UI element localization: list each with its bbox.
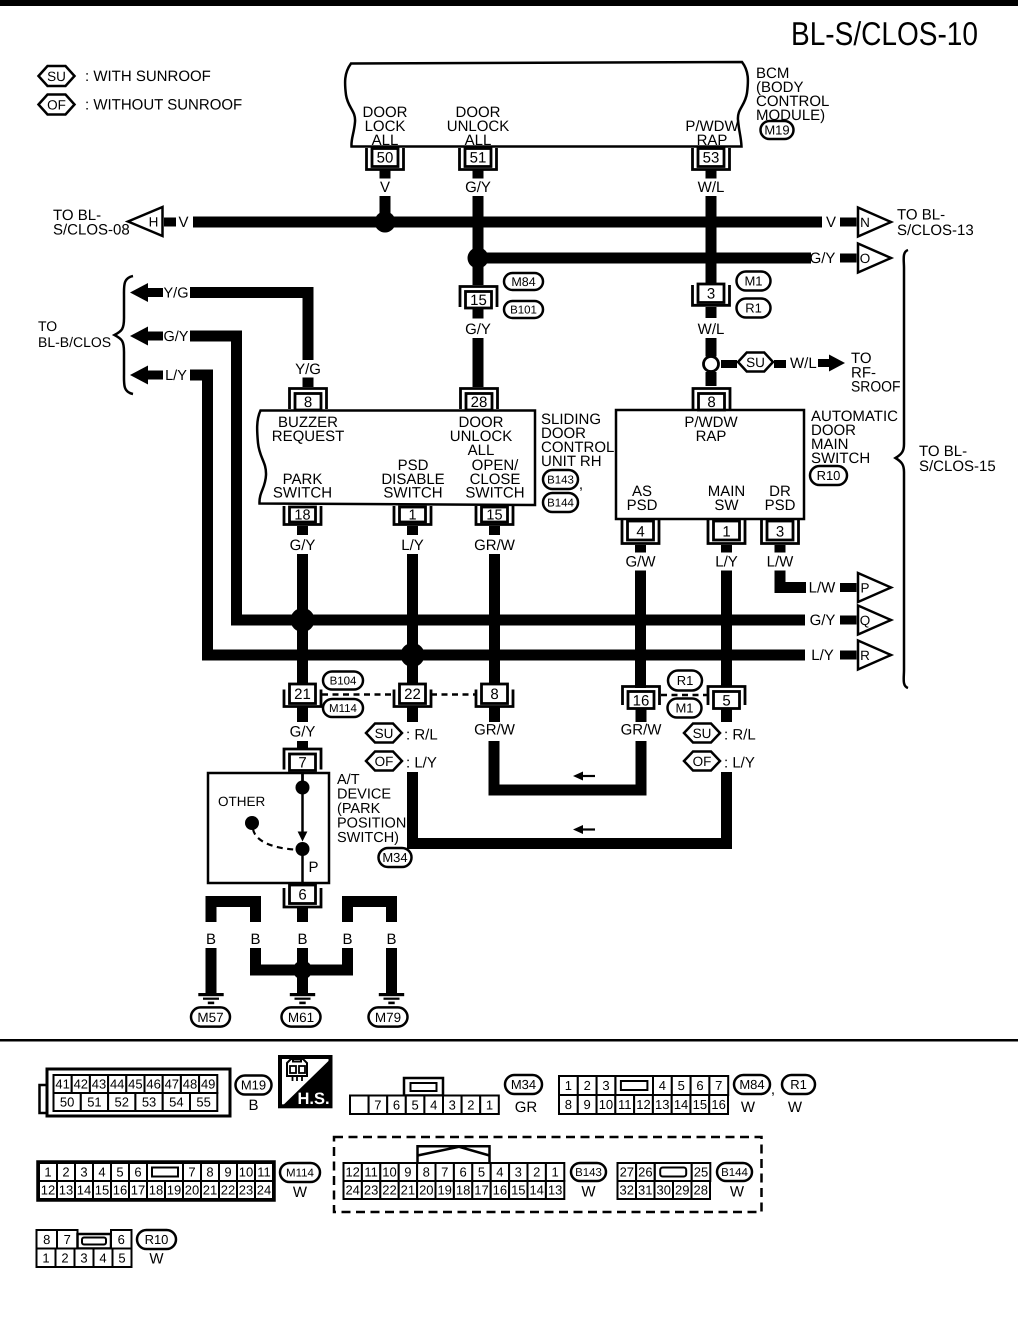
svg-text:G/Y: G/Y xyxy=(290,724,316,741)
svg-text:7: 7 xyxy=(64,1232,71,1247)
svg-text:25: 25 xyxy=(694,1165,708,1180)
svg-text:G/Y: G/Y xyxy=(465,321,491,338)
svg-text:SWITCH: SWITCH xyxy=(811,450,870,467)
svg-text:5: 5 xyxy=(411,1097,418,1112)
svg-text:UNIT RH: UNIT RH xyxy=(541,453,602,470)
svg-text:PSD: PSD xyxy=(765,497,796,514)
svg-text:4: 4 xyxy=(430,1097,437,1112)
svg-text:8: 8 xyxy=(43,1232,50,1247)
svg-text:R10: R10 xyxy=(145,1232,169,1247)
svg-text:M84: M84 xyxy=(511,275,535,289)
svg-text:16: 16 xyxy=(711,1097,725,1112)
svg-text:G/Y: G/Y xyxy=(810,250,836,267)
svg-text:4: 4 xyxy=(99,1250,106,1265)
svg-text:26: 26 xyxy=(638,1165,652,1180)
svg-text:12: 12 xyxy=(345,1165,359,1180)
svg-text:BL-B/CLOS: BL-B/CLOS xyxy=(38,334,111,350)
svg-text:14: 14 xyxy=(529,1183,543,1198)
svg-text:8: 8 xyxy=(490,686,498,703)
svg-text:3: 3 xyxy=(707,286,715,303)
svg-text:3: 3 xyxy=(449,1097,456,1112)
svg-text:43: 43 xyxy=(92,1077,106,1092)
svg-text:M84: M84 xyxy=(739,1077,764,1092)
svg-text:G/Y: G/Y xyxy=(465,179,491,196)
svg-text:2: 2 xyxy=(61,1250,68,1265)
svg-text:GR/W: GR/W xyxy=(474,537,516,554)
svg-text:19: 19 xyxy=(167,1183,181,1198)
svg-text:M114: M114 xyxy=(286,1168,315,1180)
svg-text:48: 48 xyxy=(183,1077,197,1092)
svg-text:18: 18 xyxy=(149,1183,163,1198)
svg-text:31: 31 xyxy=(638,1183,652,1198)
svg-text:W: W xyxy=(730,1184,745,1201)
svg-text:RAP: RAP xyxy=(697,132,728,149)
svg-text:1: 1 xyxy=(551,1165,558,1180)
svg-text:20: 20 xyxy=(185,1183,199,1198)
svg-text:13: 13 xyxy=(548,1183,562,1198)
svg-text:5: 5 xyxy=(478,1165,485,1180)
svg-text:3: 3 xyxy=(776,524,784,541)
svg-text:SU: SU xyxy=(693,726,712,741)
svg-text:54: 54 xyxy=(169,1095,183,1110)
svg-text:G/Y: G/Y xyxy=(290,537,316,554)
svg-text:51: 51 xyxy=(87,1095,101,1110)
svg-text:2: 2 xyxy=(467,1097,474,1112)
svg-text:18: 18 xyxy=(456,1183,470,1198)
svg-text:24: 24 xyxy=(345,1183,359,1198)
svg-text:R1: R1 xyxy=(745,301,762,316)
svg-text:15: 15 xyxy=(486,508,502,524)
svg-text:PSD: PSD xyxy=(627,497,658,514)
svg-text:B: B xyxy=(386,931,396,948)
svg-text:55: 55 xyxy=(196,1095,210,1110)
svg-text:13: 13 xyxy=(59,1183,73,1198)
svg-text:W/L: W/L xyxy=(698,179,725,196)
svg-text:TO BL-: TO BL- xyxy=(897,207,945,224)
svg-text:22: 22 xyxy=(382,1183,396,1198)
svg-text:B: B xyxy=(297,931,307,948)
svg-text:6: 6 xyxy=(696,1078,703,1093)
svg-text:M114: M114 xyxy=(329,703,358,715)
svg-text:SROOF: SROOF xyxy=(851,379,901,396)
svg-text:GR/W: GR/W xyxy=(621,722,663,739)
svg-text:OF: OF xyxy=(693,754,712,769)
svg-text:L/W: L/W xyxy=(809,580,837,597)
svg-text:5: 5 xyxy=(116,1165,123,1180)
svg-text:12: 12 xyxy=(41,1183,55,1198)
svg-text:2: 2 xyxy=(62,1165,69,1180)
svg-text:50: 50 xyxy=(60,1095,74,1110)
svg-text:23: 23 xyxy=(239,1183,253,1198)
svg-text:S/CLOS-13: S/CLOS-13 xyxy=(897,222,974,239)
svg-text:1: 1 xyxy=(42,1250,49,1265)
svg-text:OTHER: OTHER xyxy=(218,794,266,809)
svg-text:8: 8 xyxy=(423,1165,430,1180)
svg-text:32: 32 xyxy=(620,1183,634,1198)
svg-text:23: 23 xyxy=(364,1183,378,1198)
svg-text:17: 17 xyxy=(131,1183,145,1198)
svg-text:15: 15 xyxy=(693,1097,707,1112)
svg-text:B144: B144 xyxy=(547,498,574,510)
svg-text:1: 1 xyxy=(722,524,730,541)
svg-text:24: 24 xyxy=(257,1183,271,1198)
svg-text:: WITHOUT SUNROOF: : WITHOUT SUNROOF xyxy=(85,97,242,114)
svg-text:S/CLOS-08: S/CLOS-08 xyxy=(53,222,130,239)
svg-text:ALL: ALL xyxy=(465,132,492,149)
svg-text:B143: B143 xyxy=(547,475,574,487)
svg-text:L/Y: L/Y xyxy=(401,537,424,554)
svg-text:50: 50 xyxy=(377,150,394,167)
svg-text:13: 13 xyxy=(655,1097,669,1112)
svg-text:22: 22 xyxy=(221,1183,235,1198)
svg-text:4: 4 xyxy=(659,1078,666,1093)
svg-text:21: 21 xyxy=(401,1183,415,1198)
svg-text:11: 11 xyxy=(618,1097,632,1112)
svg-text:28: 28 xyxy=(694,1183,708,1198)
svg-text:W: W xyxy=(788,1099,803,1116)
svg-text:6: 6 xyxy=(459,1165,466,1180)
svg-text:L/W: L/W xyxy=(767,554,795,571)
svg-text:16: 16 xyxy=(493,1183,507,1198)
svg-text:Q: Q xyxy=(860,613,871,628)
svg-text:8: 8 xyxy=(565,1097,572,1112)
svg-text:9: 9 xyxy=(224,1165,231,1180)
svg-text:M79: M79 xyxy=(375,1010,401,1025)
svg-text:,: , xyxy=(579,476,583,493)
svg-text:14: 14 xyxy=(77,1183,91,1198)
svg-text:53: 53 xyxy=(703,150,720,167)
svg-text:22: 22 xyxy=(404,686,421,703)
svg-text:R10: R10 xyxy=(817,468,841,483)
svg-text:B: B xyxy=(248,1097,258,1114)
svg-text:: L/Y: : L/Y xyxy=(724,755,755,772)
svg-text:47: 47 xyxy=(165,1077,179,1092)
svg-text:SU: SU xyxy=(47,69,66,84)
svg-text:1: 1 xyxy=(565,1078,572,1093)
svg-text:B: B xyxy=(250,931,260,948)
svg-text:: L/Y: : L/Y xyxy=(406,755,437,772)
svg-text:7: 7 xyxy=(374,1097,381,1112)
svg-text:W: W xyxy=(741,1099,756,1116)
svg-text:15: 15 xyxy=(511,1183,525,1198)
svg-text:18: 18 xyxy=(294,508,310,524)
svg-text:M34: M34 xyxy=(511,1077,536,1092)
svg-text:1: 1 xyxy=(408,508,416,524)
svg-text:M57: M57 xyxy=(197,1010,223,1025)
svg-text:W/L: W/L xyxy=(698,321,725,338)
svg-text:M19: M19 xyxy=(764,123,789,138)
svg-text:3: 3 xyxy=(515,1165,522,1180)
svg-text:7: 7 xyxy=(298,755,306,772)
svg-text:10: 10 xyxy=(382,1165,396,1180)
svg-text:SU: SU xyxy=(375,726,394,741)
svg-text:GR: GR xyxy=(515,1099,538,1116)
svg-text:R1: R1 xyxy=(677,673,694,688)
svg-text:M61: M61 xyxy=(288,1010,314,1025)
svg-text:15: 15 xyxy=(95,1183,109,1198)
svg-text:W: W xyxy=(581,1184,596,1201)
svg-text:V: V xyxy=(178,214,188,231)
svg-text:H: H xyxy=(149,215,159,230)
svg-text:SWITCH): SWITCH) xyxy=(337,830,399,846)
svg-text:52: 52 xyxy=(115,1095,129,1110)
svg-text:30: 30 xyxy=(657,1183,671,1198)
svg-text:W/L: W/L xyxy=(790,355,817,372)
svg-text:G/W: G/W xyxy=(626,554,657,571)
svg-text:8: 8 xyxy=(707,394,715,411)
svg-text:9: 9 xyxy=(584,1097,591,1112)
svg-text:19: 19 xyxy=(437,1183,451,1198)
svg-text:B144: B144 xyxy=(721,1167,748,1179)
svg-text:11: 11 xyxy=(364,1165,378,1180)
svg-text:8: 8 xyxy=(206,1165,213,1180)
svg-text:4: 4 xyxy=(496,1165,503,1180)
svg-text:L/Y: L/Y xyxy=(811,647,834,664)
svg-text:B104: B104 xyxy=(330,676,357,688)
svg-text:5: 5 xyxy=(722,693,730,710)
svg-text:2: 2 xyxy=(584,1078,591,1093)
svg-text:6: 6 xyxy=(298,887,306,904)
svg-text:Y/G: Y/G xyxy=(164,286,189,302)
svg-text:51: 51 xyxy=(470,150,487,167)
svg-text:TO: TO xyxy=(38,318,57,334)
svg-text:Y/G: Y/G xyxy=(295,361,321,378)
svg-text:21: 21 xyxy=(203,1183,217,1198)
svg-text:1: 1 xyxy=(486,1097,493,1112)
svg-text:46: 46 xyxy=(146,1077,160,1092)
svg-text:O: O xyxy=(860,251,871,266)
svg-text:ALL: ALL xyxy=(372,132,399,149)
svg-text:,: , xyxy=(771,1081,775,1098)
svg-text:M34: M34 xyxy=(382,850,407,865)
svg-text:3: 3 xyxy=(80,1250,87,1265)
svg-text:4: 4 xyxy=(636,524,644,541)
svg-text:7: 7 xyxy=(188,1165,195,1180)
svg-text:11: 11 xyxy=(257,1165,271,1180)
svg-text:49: 49 xyxy=(201,1077,215,1092)
svg-text:16: 16 xyxy=(113,1183,127,1198)
svg-text:21: 21 xyxy=(294,686,311,703)
svg-text:B101: B101 xyxy=(510,305,537,317)
svg-text:N: N xyxy=(860,215,870,230)
svg-text:5: 5 xyxy=(678,1078,685,1093)
svg-text:7: 7 xyxy=(441,1165,448,1180)
svg-text:W: W xyxy=(293,1184,308,1201)
svg-text:6: 6 xyxy=(393,1097,400,1112)
svg-text:20: 20 xyxy=(419,1183,433,1198)
svg-text:L/Y: L/Y xyxy=(165,368,187,384)
svg-text:V: V xyxy=(380,179,390,196)
svg-text:OF: OF xyxy=(47,97,66,112)
svg-text:28: 28 xyxy=(471,394,488,411)
svg-text:15: 15 xyxy=(470,292,487,309)
svg-text:27: 27 xyxy=(620,1165,634,1180)
svg-text:REQUEST: REQUEST xyxy=(272,428,345,445)
svg-text:17: 17 xyxy=(474,1183,488,1198)
svg-text:10: 10 xyxy=(599,1097,613,1112)
svg-text:SWITCH: SWITCH xyxy=(465,485,524,502)
svg-text:H.S.: H.S. xyxy=(297,1090,329,1108)
svg-text:42: 42 xyxy=(74,1077,88,1092)
svg-text:4: 4 xyxy=(98,1165,105,1180)
svg-text:G/Y: G/Y xyxy=(810,612,836,629)
svg-text:W: W xyxy=(149,1251,164,1268)
svg-text:M19: M19 xyxy=(241,1078,266,1093)
svg-text:10: 10 xyxy=(239,1165,253,1180)
svg-text:M1: M1 xyxy=(744,274,762,289)
svg-text:2: 2 xyxy=(533,1165,540,1180)
svg-text:RAP: RAP xyxy=(696,428,727,445)
svg-text:SW: SW xyxy=(714,497,739,514)
svg-text:1: 1 xyxy=(44,1165,51,1180)
svg-text:: R/L: : R/L xyxy=(724,727,756,744)
svg-text:16: 16 xyxy=(633,693,650,710)
svg-text:6: 6 xyxy=(134,1165,141,1180)
svg-text:53: 53 xyxy=(142,1095,156,1110)
svg-text:P: P xyxy=(860,581,869,596)
svg-text:45: 45 xyxy=(128,1077,142,1092)
svg-text:S/CLOS-15: S/CLOS-15 xyxy=(919,458,996,475)
svg-text:9: 9 xyxy=(404,1165,411,1180)
svg-text:: WITH SUNROOF: : WITH SUNROOF xyxy=(85,68,211,85)
svg-text:3: 3 xyxy=(80,1165,87,1180)
svg-text:8: 8 xyxy=(304,394,312,411)
svg-text:OF: OF xyxy=(375,754,394,769)
svg-text:V: V xyxy=(826,214,836,231)
svg-text:R1: R1 xyxy=(790,1077,807,1092)
svg-text:R: R xyxy=(860,648,870,663)
svg-text:B143: B143 xyxy=(575,1167,602,1179)
svg-text:7: 7 xyxy=(715,1078,722,1093)
svg-text:SWITCH: SWITCH xyxy=(273,485,332,502)
svg-text:M1: M1 xyxy=(675,701,693,716)
svg-text:SWITCH: SWITCH xyxy=(383,485,442,502)
svg-text:: R/L: : R/L xyxy=(406,727,438,744)
svg-text:GR/W: GR/W xyxy=(474,722,516,739)
svg-text:B: B xyxy=(342,931,352,948)
svg-text:G/Y: G/Y xyxy=(164,329,189,345)
svg-text:44: 44 xyxy=(110,1077,124,1092)
svg-text:14: 14 xyxy=(674,1097,688,1112)
svg-text:SU: SU xyxy=(746,355,765,370)
svg-text:29: 29 xyxy=(675,1183,689,1198)
svg-text:12: 12 xyxy=(636,1097,650,1112)
svg-text:6: 6 xyxy=(118,1232,125,1247)
svg-text:BL-S/CLOS-10: BL-S/CLOS-10 xyxy=(791,15,978,52)
svg-text:3: 3 xyxy=(602,1078,609,1093)
svg-text:41: 41 xyxy=(55,1077,69,1092)
svg-text:B: B xyxy=(206,931,216,948)
svg-text:5: 5 xyxy=(118,1250,125,1265)
svg-text:L/Y: L/Y xyxy=(715,554,738,571)
svg-text:P: P xyxy=(309,859,319,876)
